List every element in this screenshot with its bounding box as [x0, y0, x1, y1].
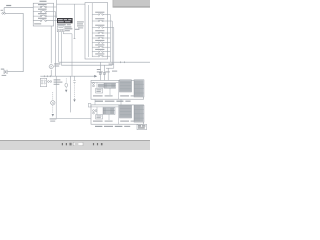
- fuse F1: [33, 4, 53, 8]
- top-right toolbar panel: [113, 0, 150, 8]
- instrument panel box (upper): [91, 80, 144, 99]
- wire branch to accessory drop: [74, 4, 76, 39]
- internal bus wire box1: [91, 82, 119, 95]
- wire riser mid x=70.6: [70, 76, 72, 112]
- connector table 1b: [120, 80, 132, 92]
- wire main bus to battery: [6, 13, 24, 71]
- relay box in box1: [96, 88, 103, 93]
- caption text below box2: [95, 126, 130, 127]
- connector J5 on riser 1: [99, 73, 101, 75]
- wire bus A (ACC): [59, 61, 151, 80]
- wire main bus horizontal (B-W) with arrow: [40, 75, 97, 78]
- relay/fuse row 5 in J/B: [92, 35, 110, 39]
- connector circles box2: [93, 110, 97, 114]
- fuse F2: [33, 9, 53, 13]
- wire fuse row4 to switch label: [54, 20, 58, 22]
- junction block J/B right (relay box): [85, 3, 108, 59]
- shield dashed drop 2 with lamp and arrow: [50, 92, 57, 122]
- circuit breaker CB (mid-left): [49, 26, 60, 76]
- wire bus C (IG2): [106, 64, 114, 81]
- connector circles box1: [93, 83, 95, 87]
- relay/fuse row 1 in J/B: [92, 12, 110, 16]
- wire ignition IG1 to bus B: [60, 32, 62, 65]
- wire link between boxes 1: [94, 99, 96, 105]
- tall pin column 2: [134, 105, 144, 122]
- wire W-L top feed: [4, 5, 33, 13]
- connector stub on lower box edge: [88, 103, 91, 107]
- connector block C1 (bottom-left of bus): [40, 78, 46, 86]
- wire bus B (IG1): [61, 65, 112, 80]
- connector pins row right of C1: [48, 79, 63, 84]
- legend box bottom-right: [137, 124, 147, 129]
- ignition switch SW1: [57, 26, 72, 32]
- wire feed from page top: [56, 0, 58, 18]
- tall pin column 1: [134, 80, 144, 97]
- text row inside box1: [93, 95, 135, 96]
- dashed drop x=74.5 with connector and arrow: [73, 76, 75, 102]
- wire ignition IG2 to bus: [63, 29, 79, 76]
- wire fuse row2 down: [54, 12, 56, 77]
- wire right riser 2: [111, 21, 113, 65]
- bottom status/pager bar: [0, 140, 150, 150]
- pager controls: [62, 142, 103, 145]
- relay/fuse row 7 in J/B: [92, 44, 110, 48]
- wire ignition ACC to bus A: [58, 32, 60, 63]
- relay box in box2: [96, 115, 103, 119]
- text row inside box2: [93, 121, 135, 122]
- connector table 2b: [120, 105, 132, 118]
- wire right riser 3: [113, 28, 115, 69]
- relay/fuse row 8 in J/B: [92, 49, 110, 53]
- fuse box (top-center): [33, 3, 53, 26]
- wire fuse row1 to junction block: [54, 4, 85, 7]
- node J5 labels: [97, 69, 117, 72]
- highlighted part label (selected): [57, 18, 73, 23]
- relay/fuse row 3 in J/B: [92, 25, 114, 28]
- wire long drop to lower box: [56, 76, 91, 118]
- connector grid 2a: [103, 107, 115, 114]
- wire link between boxes 2: [120, 99, 122, 105]
- relay/fuse row 9 in J/B: [92, 53, 110, 57]
- relay/fuse row 2 in J/B: [92, 18, 112, 21]
- wire right riser 1: [109, 15, 111, 63]
- internal bus wire box2: [91, 107, 119, 120]
- relay/fuse row 4 in J/B: [92, 30, 110, 34]
- node fusible link junction: [1, 10, 6, 14]
- caption text below box1: [95, 101, 131, 102]
- engine compartment box (lower): [91, 105, 144, 124]
- ignition switch label text: [57, 24, 71, 25]
- wire fuse row3 to switch label: [54, 15, 58, 17]
- fuse F3: [33, 13, 53, 17]
- shield dashed drop 1 with arrow: [65, 78, 68, 92]
- relay/fuse row 6 in J/B: [92, 40, 110, 44]
- battery: [1, 69, 7, 76]
- connector grid 1a: [104, 83, 116, 88]
- note text left of J/B: [77, 21, 84, 28]
- fuse F4: [33, 18, 53, 22]
- connector grid 1a-side: [99, 84, 104, 87]
- connector J5 on riser 2: [103, 73, 105, 75]
- fuse box title text: [40, 1, 47, 2]
